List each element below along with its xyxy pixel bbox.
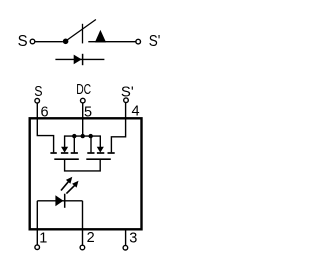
svg-text:S: S (34, 83, 42, 100)
svg-text:DC: DC (76, 82, 91, 98)
svg-text:2: 2 (87, 230, 95, 246)
svg-text:S': S' (149, 33, 161, 50)
svg-text:S: S (18, 33, 28, 50)
svg-text:3: 3 (129, 231, 137, 247)
svg-text:1: 1 (39, 230, 47, 246)
